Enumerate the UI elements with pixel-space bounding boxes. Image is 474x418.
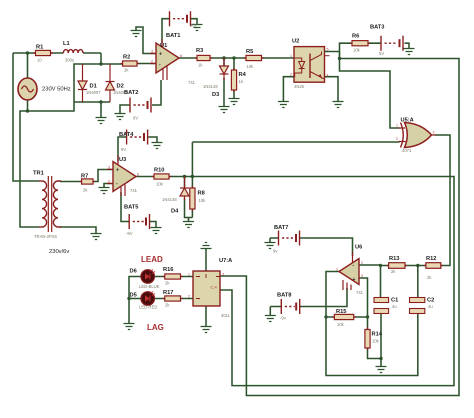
svg-text:1N4148: 1N4148 xyxy=(203,84,218,89)
ground under D4 R8 xyxy=(183,222,194,228)
GROUNDS xyxy=(91,25,415,373)
svg-text:LED-RED: LED-RED xyxy=(139,305,157,310)
wire U7 top power xyxy=(205,249,207,271)
resistor R14 xyxy=(365,328,370,351)
svg-text:R15: R15 xyxy=(336,309,346,315)
svg-text:+: + xyxy=(159,52,162,58)
wire source stem xyxy=(27,53,29,111)
wire R6 branch xyxy=(340,43,410,58)
resistor R4 xyxy=(231,68,236,92)
svg-text:R14: R14 xyxy=(372,332,383,338)
LED D6 blue xyxy=(141,270,155,284)
op-amp U3 xyxy=(107,155,136,196)
source V1 230V sine xyxy=(18,78,37,100)
svg-text:R17: R17 xyxy=(163,290,173,296)
svg-text:10k: 10k xyxy=(199,198,207,203)
svg-text:1N4148: 1N4148 xyxy=(162,197,177,202)
node R13 right xyxy=(416,264,419,267)
svg-text:U2: U2 xyxy=(292,39,299,45)
svg-text:3: 3 xyxy=(222,273,224,277)
svg-text:4u: 4u xyxy=(428,304,433,309)
svg-text:10k: 10k xyxy=(372,339,380,344)
ground under R4 xyxy=(229,99,240,105)
resistor R2 xyxy=(121,61,140,66)
svg-text:741: 741 xyxy=(130,188,138,193)
battery BAT1 xyxy=(170,11,191,26)
svg-text:C1: C1 xyxy=(391,298,398,304)
svg-text:3: 3 xyxy=(361,274,363,278)
svg-text:R4: R4 xyxy=(239,72,247,78)
wire source bottom to TR1 primary bottom xyxy=(20,111,39,227)
svg-text:1: 1 xyxy=(188,273,190,277)
svg-text:230V 50Hz: 230V 50Hz xyxy=(42,87,71,93)
ground right of BAT4 xyxy=(152,143,163,149)
svg-text:2: 2 xyxy=(396,137,398,141)
ground right of BAT5 xyxy=(151,228,162,234)
capacitor C2 xyxy=(410,298,425,314)
wire clamp bottom rail xyxy=(83,102,111,117)
svg-text:U7:A: U7:A xyxy=(219,258,232,264)
svg-text:4N25: 4N25 xyxy=(294,84,305,89)
svg-text:9V: 9V xyxy=(133,116,138,121)
svg-text:6: 6 xyxy=(137,173,139,177)
wire U6 plus input down to R15 right node xyxy=(359,278,368,317)
op-amp U1 xyxy=(150,39,179,80)
svg-text:U1: U1 xyxy=(160,43,167,49)
svg-text:300u: 300u xyxy=(65,58,75,63)
svg-text:6: 6 xyxy=(180,54,182,58)
wire LED anode rail xyxy=(129,277,141,324)
wire rail to OR gate input 2 xyxy=(192,142,399,177)
battery BAT4 xyxy=(127,130,148,145)
svg-text:C,4: C,4 xyxy=(211,285,218,290)
battery BAT3 xyxy=(381,36,403,51)
svg-text:R3: R3 xyxy=(196,48,203,54)
svg-text:BAT2: BAT2 xyxy=(124,90,138,96)
node R8 top xyxy=(191,175,194,178)
svg-text:U5:A: U5:A xyxy=(401,118,414,124)
svg-text:3: 3 xyxy=(108,166,110,170)
svg-text:R13: R13 xyxy=(389,256,399,262)
resistor R17 xyxy=(163,296,183,301)
svg-text:1N4007: 1N4007 xyxy=(86,90,101,95)
svg-text:R5: R5 xyxy=(246,49,253,55)
svg-text:2: 2 xyxy=(290,73,292,77)
svg-text:BAT8: BAT8 xyxy=(277,293,291,299)
svg-text:R2: R2 xyxy=(123,55,130,61)
optocoupler U2 xyxy=(294,47,340,83)
node R15 right xyxy=(366,315,369,318)
ground under clamp rail xyxy=(96,118,107,124)
node clamp top xyxy=(99,62,102,65)
resistor R1 xyxy=(33,50,53,55)
svg-text:1: 1 xyxy=(396,124,398,128)
battery BAT5 xyxy=(129,214,149,229)
wire U1 output to R3 xyxy=(179,57,294,59)
capacitor C1 xyxy=(374,298,389,314)
svg-text:5V: 5V xyxy=(379,51,384,56)
ground under BAT2 xyxy=(115,114,126,120)
svg-text:4u: 4u xyxy=(392,304,397,309)
RESISTORS horizontal xyxy=(33,41,443,320)
svg-text:R1: R1 xyxy=(36,45,43,51)
svg-text:10k: 10k xyxy=(247,64,255,69)
svg-text:R10: R10 xyxy=(154,168,164,174)
svg-text:BAT1: BAT1 xyxy=(166,33,180,39)
diode D4 xyxy=(180,177,189,201)
LED D5 red xyxy=(141,292,155,306)
node LED anode xyxy=(127,297,130,300)
ground below U7 xyxy=(201,327,212,333)
resistor R15 xyxy=(332,314,355,319)
ground U2 pin2 xyxy=(278,102,289,108)
wire U2 out rail to right edge xyxy=(220,59,459,396)
svg-text:2: 2 xyxy=(188,295,190,299)
wire R4 branch xyxy=(233,58,235,98)
wire clamp top rail xyxy=(83,63,123,65)
wire U7 bottom to ground xyxy=(205,306,207,326)
svg-text:4071: 4071 xyxy=(402,148,412,153)
node U2 out xyxy=(338,57,341,60)
wire U6 output loop and R15 left xyxy=(326,272,418,376)
svg-text:BAT3: BAT3 xyxy=(370,25,384,31)
ground above U7 xyxy=(201,243,212,249)
svg-text:LAG: LAG xyxy=(147,323,164,332)
svg-text:3: 3 xyxy=(433,131,435,135)
diode D2 xyxy=(106,64,115,102)
svg-text:2: 2 xyxy=(108,180,110,184)
svg-text:R12: R12 xyxy=(426,256,436,262)
svg-text:R8: R8 xyxy=(198,191,205,197)
wire U2 pin2 to ground xyxy=(283,77,294,101)
ground right of BAT1 xyxy=(192,25,203,31)
ground left of BAT7 xyxy=(265,243,276,249)
svg-text:10k: 10k xyxy=(337,322,345,327)
wire OR gate output to R12 xyxy=(435,135,450,266)
svg-text:R6: R6 xyxy=(352,34,359,40)
svg-text:741: 741 xyxy=(356,290,364,295)
svg-text:741: 741 xyxy=(188,80,196,85)
svg-text:5: 5 xyxy=(327,48,329,52)
svg-text:1: 1 xyxy=(336,268,338,272)
svg-text:D3: D3 xyxy=(212,92,219,98)
svg-text:C2: C2 xyxy=(427,298,434,304)
svg-text:U3: U3 xyxy=(119,157,126,163)
wire C1 top lead xyxy=(380,266,383,359)
node D4 top xyxy=(183,175,186,178)
wire comparator rail y176 long loop to U7 pin C4 xyxy=(169,177,454,386)
wire U2 pin4 to ground xyxy=(325,77,339,101)
wire R7 jog to U3 plus xyxy=(93,170,113,182)
NAND U7:A box xyxy=(193,271,220,306)
wire source return to clamp box xyxy=(28,64,83,111)
ground U3 minus xyxy=(99,188,110,194)
resistor R7 xyxy=(80,179,95,184)
svg-text:10: 10 xyxy=(37,58,42,63)
svg-text:230v/6v: 230v/6v xyxy=(49,249,69,255)
diode D1 xyxy=(78,64,87,102)
wire left vertical to TR1 primary top xyxy=(13,53,39,181)
svg-text:TRAN-2P2S: TRAN-2P2S xyxy=(34,234,57,239)
node source bottom xyxy=(26,109,29,112)
wire D4 branch xyxy=(185,177,193,222)
ground left of BAT8 xyxy=(265,316,276,322)
svg-text:9V: 9V xyxy=(121,147,126,152)
resistor R12 xyxy=(424,263,443,269)
ground under R14 C1 xyxy=(376,367,387,373)
battery BAT7 xyxy=(279,231,300,246)
wire U3 out to R10 xyxy=(136,176,154,178)
svg-text:U6: U6 xyxy=(355,245,362,251)
resistor R8 xyxy=(190,186,195,211)
ground under D3 xyxy=(219,107,230,113)
svg-text:4011: 4011 xyxy=(221,313,231,318)
wire R15 right to R14 xyxy=(354,317,368,330)
resistor R5 xyxy=(244,55,264,60)
node R14 ground xyxy=(379,357,382,360)
node clamp bottom xyxy=(99,100,102,103)
svg-text:10k: 10k xyxy=(353,48,361,53)
wire U6 minus input to R13 node xyxy=(359,264,381,266)
svg-text:TR1: TR1 xyxy=(33,171,44,177)
transformer TR1 xyxy=(39,176,61,232)
wire OR gate input 1 feed xyxy=(340,59,400,129)
wire U1 V- to BAT2 xyxy=(120,80,161,113)
battery BAT8 xyxy=(281,299,299,314)
wire D5 R17 row xyxy=(154,298,193,300)
battery BAT2 xyxy=(130,98,151,113)
svg-text:4: 4 xyxy=(327,74,329,78)
svg-text:2: 2 xyxy=(361,261,363,265)
wire TR1 secondary bottom to ground xyxy=(60,227,96,233)
wire BAT8 to U6 V- xyxy=(270,288,347,316)
ground TR1 secondary xyxy=(91,234,102,240)
svg-text:BAT5: BAT5 xyxy=(124,205,138,211)
svg-text:+: + xyxy=(116,168,119,174)
wire U3 V- to BAT5 xyxy=(121,192,156,227)
svg-text:D6: D6 xyxy=(130,269,137,275)
wire R8 branch xyxy=(191,177,193,218)
wire D3 branch xyxy=(223,58,225,106)
svg-text:18v: 18v xyxy=(190,23,198,28)
svg-text:3: 3 xyxy=(151,50,153,54)
svg-text:2: 2 xyxy=(151,60,153,64)
svg-text:D1: D1 xyxy=(90,84,97,90)
svg-text:R7: R7 xyxy=(81,174,88,180)
svg-text:R16: R16 xyxy=(163,267,173,273)
wire U3 minus to ground xyxy=(104,184,113,188)
node R15 left xyxy=(324,315,327,318)
svg-text:-9V: -9V xyxy=(126,231,133,236)
svg-text:LED-BLUE: LED-BLUE xyxy=(139,284,160,289)
op-amp U6 pointing left xyxy=(339,252,359,290)
svg-text:10k: 10k xyxy=(156,182,164,187)
wire R2 to U1 xyxy=(137,63,156,65)
svg-text:L1: L1 xyxy=(63,41,70,47)
wire U3 V+ to BAT4 xyxy=(118,137,157,162)
wire U1 plus input to ground xyxy=(136,27,156,54)
XOR gate U5:A xyxy=(399,123,437,148)
wire BAT7 to U6 V+ xyxy=(270,238,353,256)
wire C2 top lead xyxy=(417,266,419,298)
wire U1 V+ to BAT1 xyxy=(162,19,197,43)
node D3 top xyxy=(222,56,225,59)
ground right of BAT3 xyxy=(404,49,415,55)
ground U2 pin4 xyxy=(333,102,344,108)
resistor R13 xyxy=(387,263,407,269)
wire R14 bottom join C1 ground xyxy=(368,348,382,366)
node R13 left xyxy=(379,264,382,267)
ground U1 plus input xyxy=(131,31,142,37)
resistor R16 xyxy=(163,274,183,279)
wire main top rail xyxy=(13,53,101,64)
resistor R10 xyxy=(152,174,171,179)
svg-text:1: 1 xyxy=(290,54,292,58)
ground under LED anode rail xyxy=(124,324,135,330)
inductor L1 xyxy=(63,50,83,53)
RESISTORS vertical xyxy=(190,68,370,350)
node R4 top xyxy=(232,56,235,59)
resistor R6 xyxy=(350,41,370,46)
diode D3 xyxy=(220,58,229,80)
wire R13 R12 rail xyxy=(381,265,426,267)
svg-text:+: + xyxy=(353,277,356,283)
node R1 left xyxy=(26,51,29,54)
svg-text:D2: D2 xyxy=(117,84,124,90)
svg-text:BAT4: BAT4 xyxy=(119,132,134,138)
wire TR1 secondary to R7 xyxy=(60,181,82,183)
svg-text:BAT7: BAT7 xyxy=(274,225,288,231)
svg-text:D4: D4 xyxy=(171,209,179,215)
wire D6 R16 row xyxy=(154,276,193,278)
svg-text:-9v: -9v xyxy=(280,316,287,321)
svg-text:D5: D5 xyxy=(130,293,137,299)
resistor R3 xyxy=(195,55,212,60)
svg-text:LEAD: LEAD xyxy=(141,255,163,264)
